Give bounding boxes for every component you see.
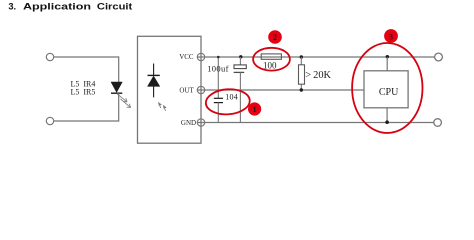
capacitor C1 104 ceramic [214, 57, 223, 123]
svg-text:3: 3 [389, 32, 393, 41]
svg-text:VCC: VCC [179, 53, 194, 61]
annotation callout 1 [248, 102, 261, 115]
junction on VCC rail at CPU [386, 55, 389, 58]
wire GND rail [197, 122, 433, 124]
CPU box [364, 71, 408, 108]
svg-text:100uf: 100uf [207, 64, 229, 74]
junction on OUT rail at R2 [300, 88, 303, 91]
svg-text:CPU: CPU [379, 87, 399, 98]
svg-text:GND: GND [181, 119, 196, 127]
annotation ellipse around C1 [205, 88, 251, 116]
terminal T3 top-right [435, 53, 443, 61]
capacitor C2 100uf electrolytic [234, 57, 247, 123]
annotation ellipse around CPU [352, 43, 422, 133]
pin VCC [179, 53, 205, 61]
junction on VCC rail at 104 branch [217, 56, 220, 59]
annotation ellipse around R1 [253, 48, 290, 71]
svg-text:3.: 3. [8, 2, 16, 12]
svg-text:L5 IR5: L5 IR5 [71, 88, 96, 97]
wire CPU bottom branch [386, 108, 388, 123]
wire VCC rail [197, 56, 434, 58]
incoming light arrows [159, 103, 166, 111]
pin GND [181, 119, 205, 127]
terminal T1 top-left [46, 53, 53, 60]
resistor R2 >20K pullup [299, 57, 305, 90]
svg-text:2: 2 [273, 33, 277, 42]
resistor R1 100 [261, 54, 281, 59]
wire top-left to LED anode [54, 57, 119, 82]
svg-text:Circuit: Circuit [97, 2, 133, 12]
photodiode D2 [148, 64, 160, 98]
junction on VCC rail at R2 [300, 55, 303, 58]
junction on GND rail at CPU [385, 120, 389, 124]
IR receiver module box [138, 36, 202, 143]
wire LED cathode to bottom-left [54, 93, 119, 121]
wire CPU top branch [386, 57, 388, 71]
light emission arrows [117, 94, 131, 108]
junction on VCC rail at C2 [239, 55, 242, 58]
svg-text:104: 104 [225, 92, 238, 101]
LED IR emitter D1 [111, 82, 122, 93]
svg-text:1: 1 [253, 105, 257, 114]
annotation callout 2 [268, 30, 282, 44]
terminal T4 bottom-right [434, 119, 442, 127]
svg-text:100: 100 [263, 60, 277, 70]
svg-text:OUT: OUT [179, 86, 194, 94]
svg-text:> 20K: > 20K [305, 70, 331, 81]
terminal T2 bottom-left [46, 117, 53, 124]
annotation callout 3 [384, 29, 398, 43]
pin OUT [179, 86, 204, 94]
svg-text:Application: Application [23, 2, 91, 12]
wire OUT rail [197, 89, 364, 91]
